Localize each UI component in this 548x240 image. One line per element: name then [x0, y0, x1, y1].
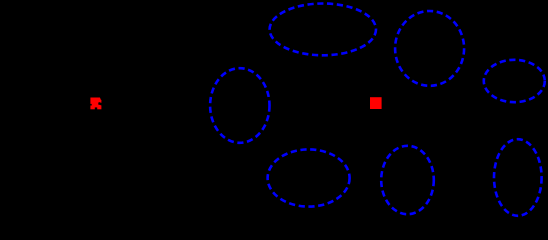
edge stub on node 1 right side — [98, 103, 102, 104]
cluster ellipse G (bottom right, tall) — [494, 139, 542, 216]
node square 2 (red, centre) — [370, 97, 382, 109]
cluster ellipse F (bottom middle, tall) — [381, 146, 434, 214]
cluster ellipse C (right, small) — [484, 60, 545, 102]
cluster ellipse E (bottom centre-left, wide) — [268, 149, 350, 206]
cluster ellipse D (middle left, tall) — [210, 68, 269, 143]
cluster ellipse B (top right, circle) — [395, 11, 464, 86]
edge stub on node 1 left side — [90, 104, 92, 106]
cluster ellipse A (top centre, wide) — [270, 4, 376, 56]
edge stub on node 1 bottom — [95, 107, 97, 109]
node square 1 (red, left) — [90, 98, 101, 110]
edge stub on node 1 top right corner — [101, 97, 102, 100]
